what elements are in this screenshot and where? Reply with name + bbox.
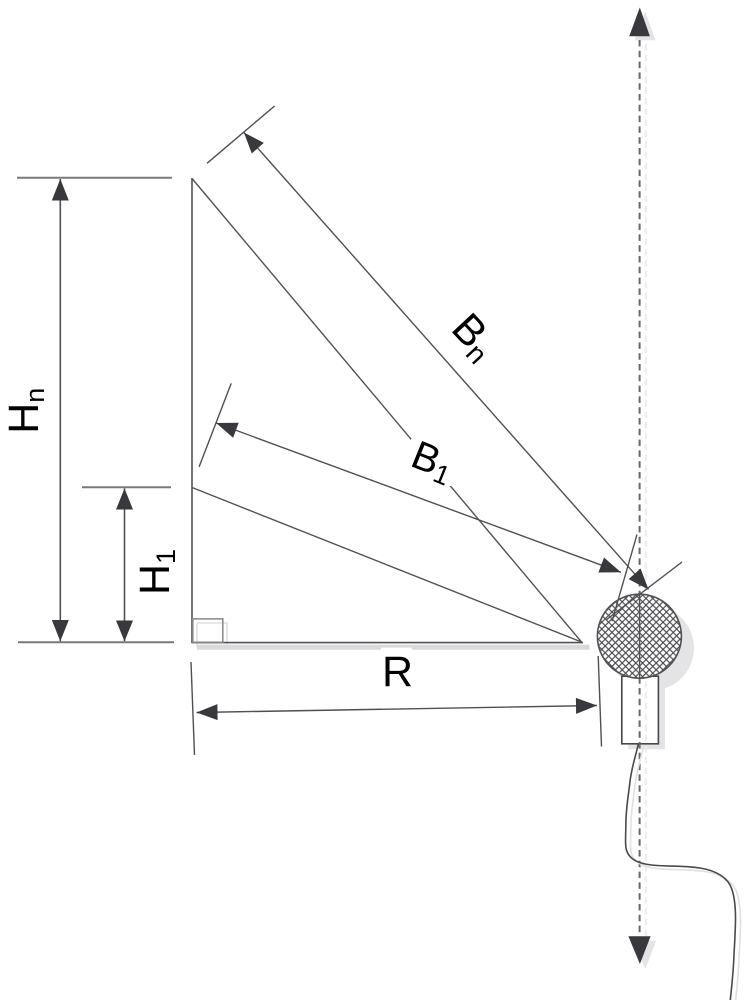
microphone cable — [625, 744, 735, 1000]
H1 top arrowhead — [116, 489, 133, 510]
microphone head circle with crosshatch — [597, 594, 681, 678]
Bn bottom tick — [606, 562, 682, 620]
B1 dimension line — [216, 423, 621, 572]
triangle mid diagonal (beam 1) — [192, 488, 582, 643]
white mask behind label R — [381, 648, 412, 690]
shadow of dashed axis line — [645, 44, 647, 938]
R left tick — [191, 662, 195, 755]
triangle baseline — [192, 642, 583, 644]
shadow of bottom axis arrowhead — [634, 941, 656, 969]
dashed axis line — [639, 40, 641, 936]
R right arrowhead — [576, 698, 597, 714]
R dimension line — [197, 706, 598, 713]
white mask behind label B1 — [411, 439, 451, 486]
shadow of microphone body rectangle — [628, 682, 665, 750]
svg-text:R: R — [382, 648, 413, 696]
top axis arrowhead — [629, 8, 650, 37]
bottom extension line — [18, 641, 174, 643]
shadow of triangle baseline — [197, 645, 590, 650]
top extension line — [17, 177, 172, 179]
shadow of microphone cable — [630, 748, 740, 1000]
shadow of microphone head circle — [609, 606, 694, 691]
Hn top arrowhead — [52, 179, 69, 201]
microphone body rectangle — [622, 676, 659, 744]
B1 right tick — [612, 535, 637, 622]
bottom axis arrowhead — [628, 936, 650, 964]
Hn bottom arrowhead — [52, 620, 69, 641]
H1 dimension line — [124, 489, 126, 642]
H1 bottom arrowhead — [116, 621, 133, 642]
R left arrowhead — [197, 704, 218, 720]
B1 right arrowhead — [598, 558, 621, 573]
Bn dimension line — [244, 133, 649, 590]
R right tick — [598, 656, 601, 747]
shadow of right-angle marker — [197, 623, 227, 646]
triangle hypotenuse (beam n) — [192, 179, 582, 643]
triangle vertical edge — [191, 178, 193, 643]
Bn bottom arrowhead — [629, 569, 649, 590]
B1 left arrowhead — [216, 423, 239, 438]
B1 left tick — [199, 383, 231, 467]
Hn dimension line — [59, 179, 61, 641]
Bn top arrowhead — [244, 133, 264, 154]
Bn top tick — [207, 106, 275, 163]
H1 extension line — [82, 486, 171, 488]
right-angle marker — [193, 619, 223, 642]
solid axis segment across microphone head — [639, 595, 641, 678]
shadow of top axis arrowhead — [635, 12, 656, 41]
